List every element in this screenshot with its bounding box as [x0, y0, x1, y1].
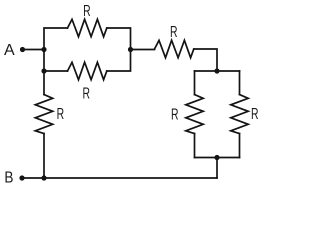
node A label — [4, 42, 15, 59]
wire right block right lower — [239, 134, 241, 158]
wire top branch right segment — [107, 28, 131, 50]
svg-text:R: R — [83, 2, 91, 20]
label R4 — [171, 105, 179, 123]
label R5 — [251, 105, 259, 123]
label R3 — [170, 23, 178, 41]
node A terminal dot — [20, 47, 25, 52]
resistor R5 (right block right) — [231, 95, 248, 134]
label R2 — [82, 84, 90, 102]
resistor R6 (left vertical) — [35, 95, 52, 134]
label R1 — [83, 2, 91, 20]
svg-text:A: A — [4, 42, 15, 59]
wire A to left junction — [23, 49, 45, 51]
resistor R4 (right block left) — [186, 95, 203, 134]
resistor R3 (series) — [155, 40, 194, 57]
node B terminal dot — [19, 175, 24, 180]
svg-text:R: R — [171, 105, 179, 123]
junction dot right of loop — [128, 47, 133, 52]
wire loop to series resistor — [131, 49, 155, 51]
wire middle branch left segment — [44, 70, 68, 72]
svg-text:B: B — [4, 169, 13, 186]
svg-text:R: R — [251, 105, 259, 123]
wire right block left upper — [194, 71, 196, 95]
svg-text:R: R — [170, 23, 178, 41]
junction dot left lower — [41, 68, 46, 73]
resistor R1 (top branch) — [68, 19, 107, 36]
wire middle branch right segment — [107, 50, 131, 72]
node B label — [4, 169, 13, 186]
wire right block to bottom rail — [216, 158, 218, 179]
wire bottom rail — [22, 177, 217, 179]
wire left resistor upper lead — [43, 71, 45, 95]
wire right block top rail — [195, 70, 240, 72]
junction dot left upper — [41, 47, 46, 52]
wire left resistor lower lead — [43, 134, 45, 179]
label R6 — [57, 105, 65, 123]
junction dot right block top — [214, 68, 219, 73]
resistor R2 (middle branch) — [68, 62, 107, 79]
junction dot bottom left — [41, 175, 46, 180]
wire right block left lower — [194, 134, 196, 158]
wire left vertical of parallel loop — [44, 28, 68, 71]
wire right block bottom rail — [195, 157, 240, 159]
svg-text:R: R — [57, 105, 65, 123]
junction dot right block bottom — [214, 155, 219, 160]
wire right block right upper — [239, 71, 241, 95]
svg-text:R: R — [82, 84, 90, 102]
wire series resistor to right block top — [194, 49, 217, 71]
